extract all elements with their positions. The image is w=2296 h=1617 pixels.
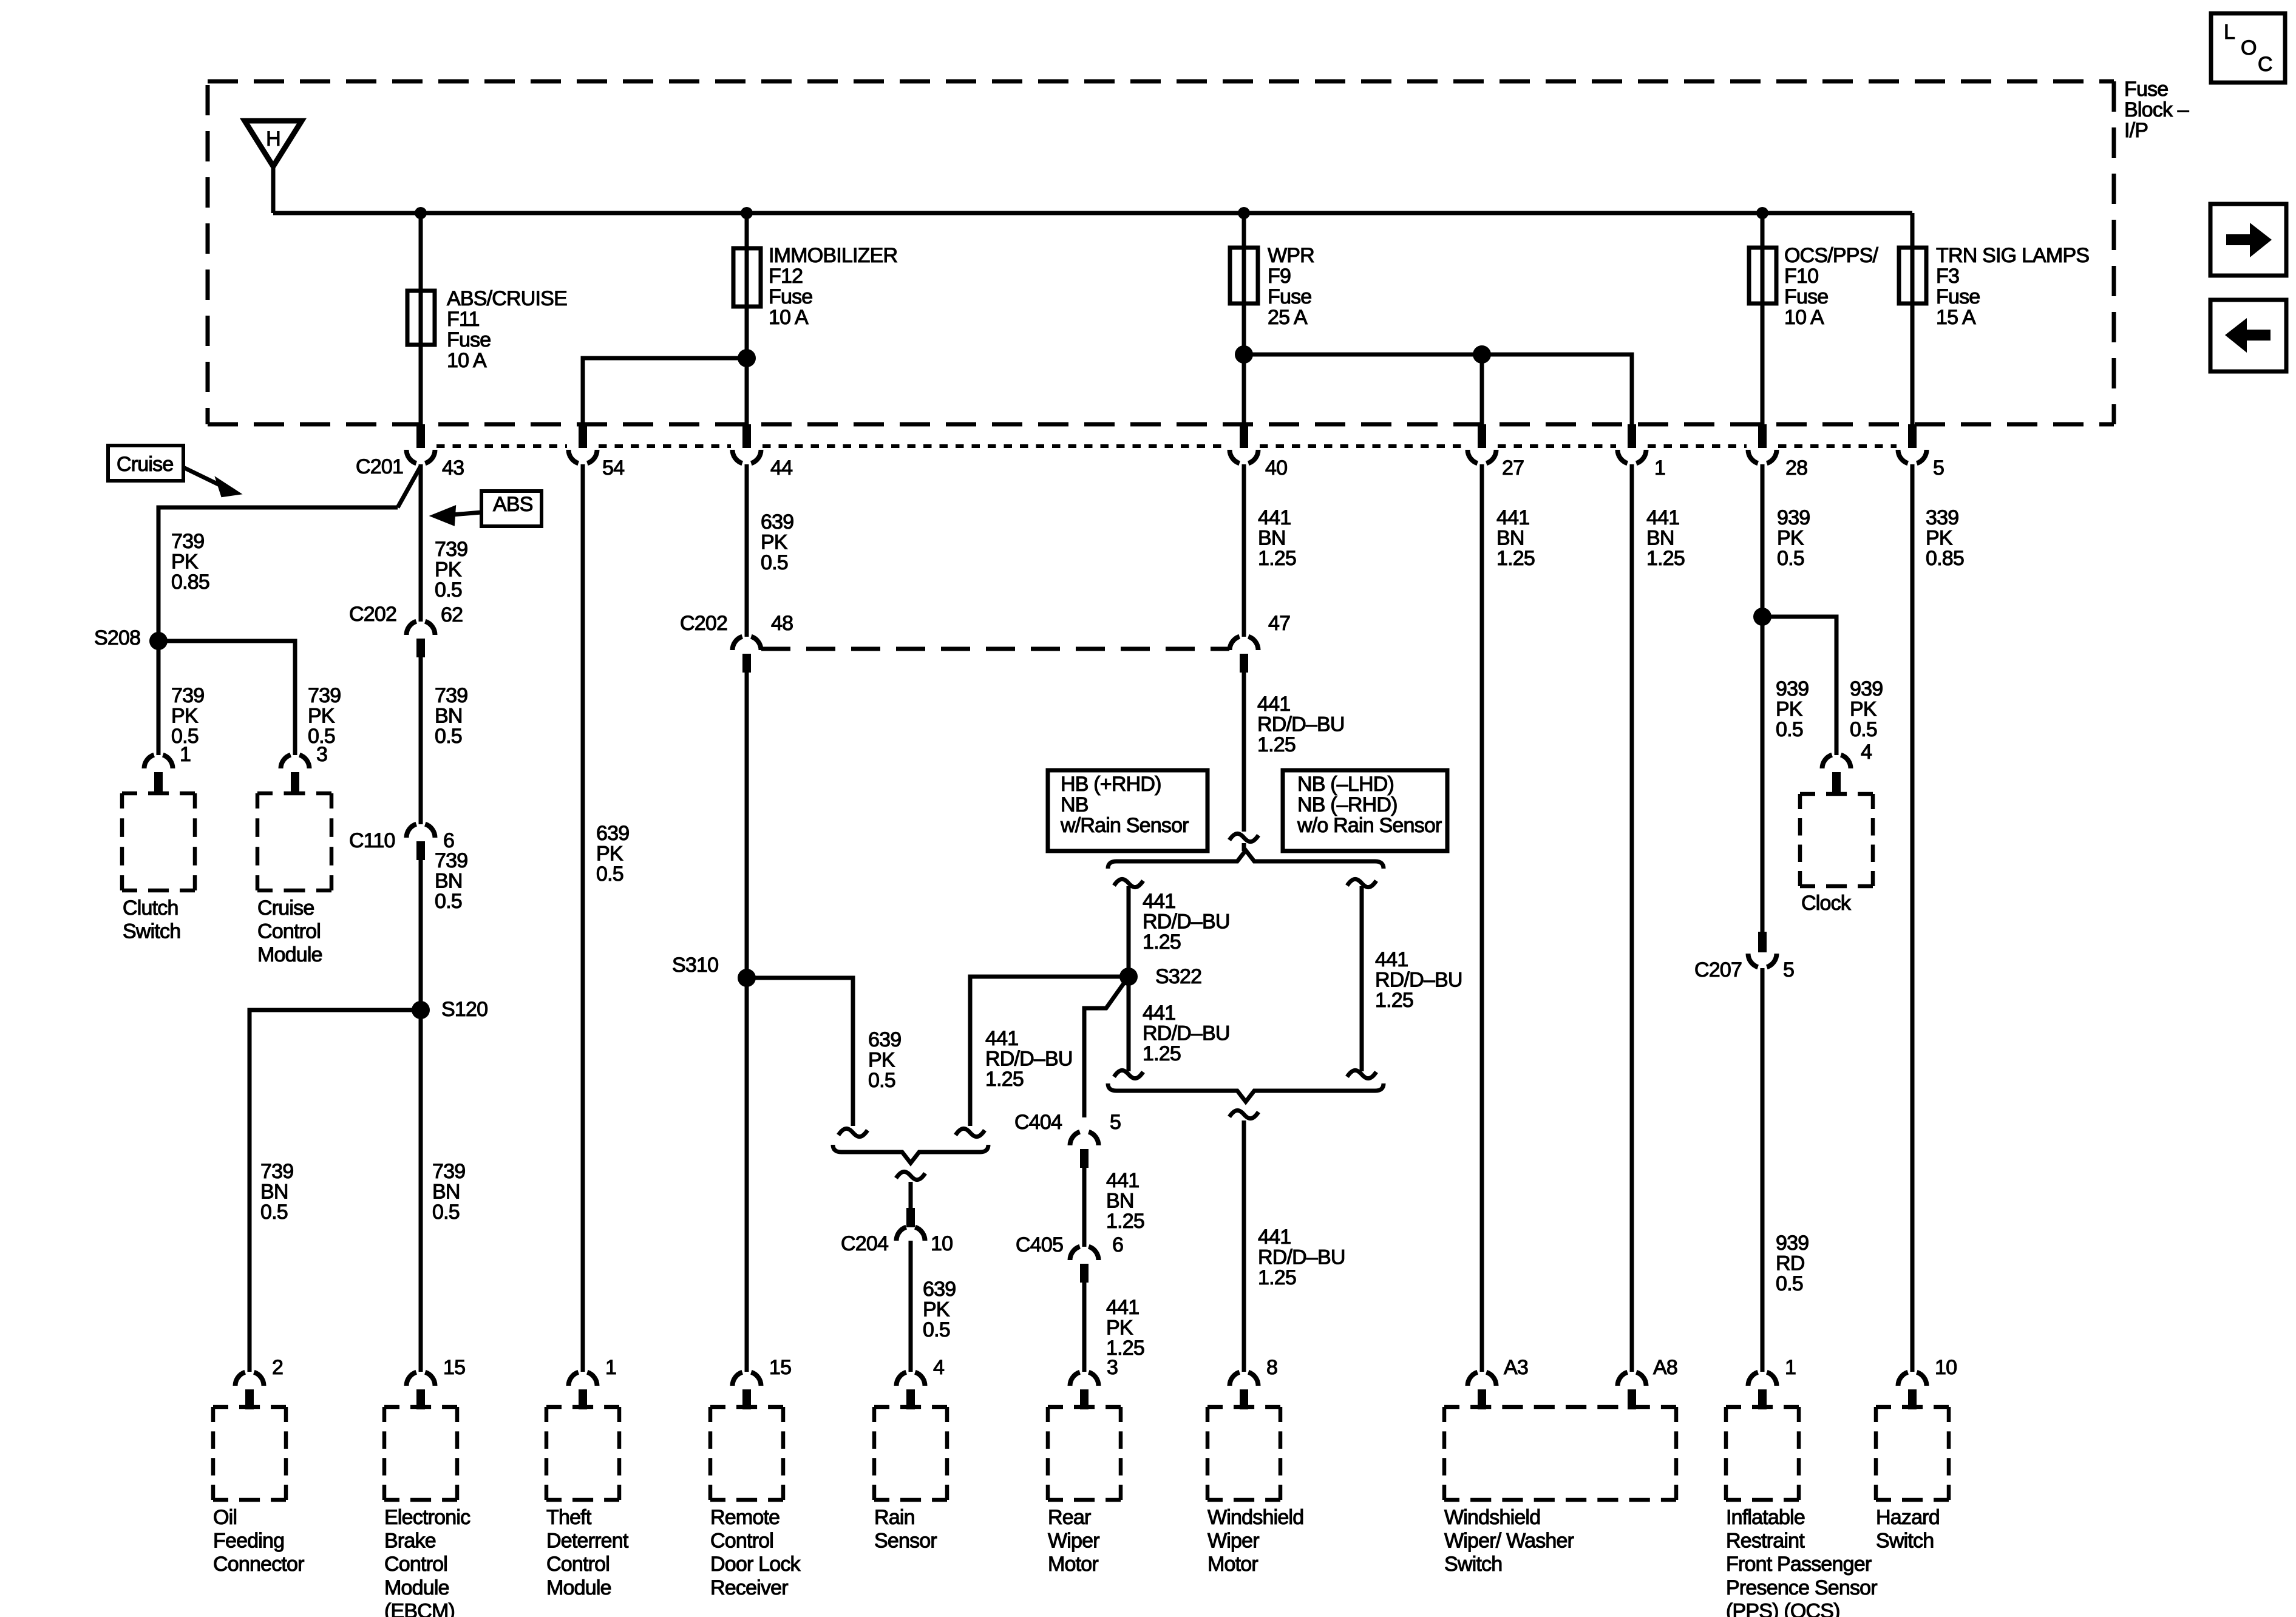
- clutch switch box: [122, 792, 195, 796]
- pin 27 connector: [1468, 450, 1478, 463]
- wire C201-43 to C202-62: [419, 464, 423, 622]
- fuse F9: [1230, 248, 1258, 303]
- svg-text:O: O: [2241, 36, 2257, 59]
- wire bus to fuse F10: [1761, 213, 1765, 303]
- rear wiper motor box: [1048, 1405, 1121, 1409]
- svg-text:C404: C404: [1014, 1111, 1062, 1134]
- C201 pin 43 connector: [407, 450, 416, 463]
- wire C110-6 to S120: [419, 860, 423, 1010]
- svg-text:Cruise: Cruise: [117, 453, 173, 476]
- wire C202-62 to C110-6: [419, 657, 423, 824]
- wire pin 44 to C202-48: [745, 464, 749, 637]
- wire C202-47 to option squiggle: [1242, 673, 1246, 832]
- right option wire: [1360, 886, 1364, 1071]
- wire pin 40 to C202-47: [1242, 464, 1246, 637]
- fuse F12 inner wire: [745, 248, 749, 307]
- wire S322 jog to C404: [1084, 977, 1129, 1117]
- wire C405 to rear wiper motor: [1082, 1283, 1087, 1372]
- inflatable restraint PPS/OCS box: [1726, 1405, 1799, 1409]
- pin 1 connector at theft deterrent control module: [569, 1372, 579, 1386]
- wire clock branch: [1762, 617, 1836, 755]
- wire C201-43 diagonal to cruise branch: [398, 466, 421, 507]
- wire bus to fuse F12: [745, 213, 749, 307]
- svg-text:4: 4: [933, 1356, 944, 1379]
- pin 40 connector: [1230, 450, 1240, 463]
- pin 4 connector at rain sensor: [897, 1372, 906, 1386]
- C207 stub: [1758, 932, 1767, 952]
- theft deterrent control module box: [546, 1405, 619, 1409]
- wire C204 to rain sensor: [909, 1241, 913, 1372]
- pin A3 connector: [1468, 1372, 1478, 1386]
- left option wire squiggle top: [1114, 879, 1143, 887]
- EBCM box: [384, 1405, 457, 1409]
- svg-text:15: 15: [769, 1356, 791, 1379]
- svg-text:C207: C207: [1694, 958, 1742, 981]
- wire fuse F12 to pin 44: [745, 307, 749, 426]
- pin 5 connector: [1898, 450, 1908, 463]
- wire F9 branch to A3/A8 columns: [1244, 354, 1632, 426]
- pin 15 connector at remote control door lock receiver: [733, 1372, 742, 1386]
- inline connector C110 pin 6: [407, 824, 416, 838]
- fuse block I/P dashed border bottom: [208, 422, 2114, 427]
- wire pin 5 to hazard switch: [1911, 464, 1915, 1372]
- svg-text:3: 3: [1107, 1356, 1118, 1379]
- option wire end squiggle (639): [838, 1128, 868, 1136]
- fuse F12: [733, 248, 761, 307]
- inline connector C207 pin 5: [1748, 954, 1758, 967]
- wire C404 to C405: [1082, 1168, 1087, 1247]
- wire pin 27 to wiper switch A3: [1480, 464, 1484, 1372]
- wire underbrace to windshield wiper motor: [1242, 1120, 1246, 1372]
- wire A3 branch down: [1480, 354, 1484, 426]
- svg-text:C: C: [2258, 53, 2272, 76]
- svg-text:S322: S322: [1155, 965, 1201, 988]
- svg-text:15: 15: [443, 1356, 465, 1379]
- pin 27 stub: [1478, 424, 1486, 448]
- wire squiggle to C204: [909, 1182, 913, 1209]
- windshield wiper/washer switch box: [1444, 1405, 1676, 1409]
- svg-text:S310: S310: [672, 954, 718, 977]
- svg-text:1: 1: [180, 743, 191, 766]
- svg-text:CruiseControlModule: CruiseControlModule: [257, 897, 322, 966]
- cruise callout arrow: [183, 467, 226, 488]
- overbrace (wpr options): [1108, 850, 1384, 869]
- option squiggle (wpr bottom): [1229, 1110, 1258, 1118]
- svg-text:48: 48: [771, 612, 793, 635]
- svg-text:10: 10: [931, 1232, 953, 1255]
- wire bus to fuse F9: [1242, 213, 1246, 303]
- junction F9 branch: [1235, 345, 1253, 364]
- wire cruise branch horizontal: [158, 507, 398, 641]
- clock pin connector: [1822, 755, 1832, 768]
- svg-text:54: 54: [602, 456, 624, 480]
- wire F12 branch to pin 54: [583, 358, 747, 426]
- pin 54 connector: [569, 450, 579, 463]
- wire pin 1 to wiper switch A8: [1630, 464, 1634, 1372]
- wire S322 branch to 441 option: [970, 977, 1129, 1126]
- pin 1 stub: [1628, 424, 1636, 448]
- oil feeding connector box: [213, 1405, 286, 1409]
- C201 pin 43 stub: [416, 424, 425, 448]
- windshield wiper motor box: [1207, 1405, 1280, 1409]
- svg-text:ClutchSwitch: ClutchSwitch: [123, 897, 180, 943]
- junction on bus at F12: [741, 207, 753, 219]
- pin 28 connector: [1748, 450, 1758, 463]
- svg-text:C202: C202: [680, 612, 727, 635]
- option box NB w/o Rain Sensor: [1283, 770, 1447, 851]
- inline connector C204 pin 10: [897, 1227, 906, 1241]
- right-arrow box: [2210, 204, 2286, 276]
- fuse F3 inner wire: [1911, 248, 1915, 303]
- svg-text:5: 5: [1110, 1111, 1121, 1134]
- option squiggle (rain): [896, 1171, 925, 1179]
- svg-text:L: L: [2224, 21, 2235, 44]
- right arrow: [2226, 223, 2272, 257]
- LOC reference box: [2211, 13, 2285, 83]
- remote control door lock receiver box: [710, 1405, 783, 1409]
- svg-text:A8: A8: [1653, 1356, 1677, 1379]
- splice S208: [149, 632, 168, 650]
- callout box Cruise: [108, 446, 183, 481]
- right option wire squiggle bottom: [1347, 1070, 1376, 1078]
- svg-text:Clock: Clock: [1801, 892, 1852, 915]
- svg-text:4: 4: [1861, 741, 1872, 764]
- left option wire: [1127, 886, 1131, 1071]
- fuse F3: [1899, 248, 1926, 303]
- wire fuse F9 to pin 40: [1242, 303, 1246, 426]
- svg-text:40: 40: [1265, 456, 1287, 480]
- wire S310 branch to rain option: [747, 978, 853, 1126]
- C202 dashed line: [761, 647, 1229, 651]
- wire pin28 to C207: [1761, 617, 1765, 933]
- wire S208 branch to cruise module: [158, 641, 295, 755]
- pin 1 connector: [1618, 450, 1628, 463]
- svg-text:5: 5: [1933, 456, 1944, 480]
- C204 stub: [906, 1208, 915, 1227]
- wire bus elbow to fuse F3: [1911, 213, 1915, 303]
- junction on bus at F10: [1756, 207, 1768, 219]
- underbrace (wpr options): [1108, 1083, 1384, 1102]
- svg-text:2: 2: [272, 1356, 283, 1379]
- wire S120 to EBCM: [419, 1010, 423, 1372]
- callout box ABS: [481, 491, 542, 526]
- pin 44 stub: [742, 424, 751, 448]
- wire pin 54 to theft deterrent module: [581, 464, 585, 1372]
- option wire end squiggle (441): [956, 1128, 985, 1136]
- left arrow: [2225, 318, 2271, 353]
- svg-text:H: H: [266, 127, 280, 151]
- splice S322: [1119, 968, 1138, 986]
- connector row dotted line: [436, 444, 567, 448]
- wire pin 28 down: [1761, 464, 1765, 617]
- pin 44 connector: [733, 450, 742, 463]
- pin 54 stub: [579, 424, 587, 448]
- wire H to bus: [271, 164, 276, 213]
- wire S310 to RCDLR: [745, 978, 749, 1372]
- pin A8 connector: [1618, 1372, 1628, 1386]
- clutch switch pin connector: [144, 755, 154, 768]
- svg-text:1: 1: [1785, 1356, 1796, 1379]
- svg-text:ABS: ABS: [493, 493, 533, 516]
- pin 8 connector at windshield wiper motor: [1230, 1372, 1240, 1386]
- option box HB w/Rain Sensor: [1048, 770, 1207, 851]
- left-arrow box: [2210, 300, 2286, 371]
- wire C207 to PPS: [1761, 968, 1765, 1372]
- inline connector C202 pin 62: [407, 622, 416, 635]
- wire squiggle to overbrace: [1242, 843, 1246, 851]
- wire fuse F11 to C201 pin 43: [419, 345, 423, 426]
- fuse block I/P dashed border right: [2112, 81, 2116, 424]
- svg-text:44: 44: [770, 456, 792, 480]
- fuse F10: [1749, 248, 1776, 303]
- fuse block I/P dashed border top: [208, 80, 2114, 84]
- wire fuse F3 to pin 5: [1911, 303, 1915, 426]
- pin 3 connector at rear wiper motor: [1070, 1372, 1080, 1386]
- svg-text:C202: C202: [349, 603, 396, 626]
- svg-text:C110: C110: [349, 829, 395, 852]
- fuse block I/P dashed border left: [206, 85, 210, 424]
- svg-text:3: 3: [316, 743, 327, 766]
- svg-text:8: 8: [1266, 1356, 1277, 1379]
- svg-text:5: 5: [1783, 958, 1794, 981]
- wire bus to fuse F11: [419, 213, 423, 345]
- wire S208 to clutch switch: [157, 641, 161, 755]
- ABS callout arrow: [452, 512, 481, 515]
- fuse F11 inner wire: [419, 291, 423, 345]
- fuse F10 inner wire: [1761, 248, 1765, 303]
- left option wire squiggle bottom: [1114, 1070, 1143, 1078]
- junction F12 branch: [738, 349, 756, 367]
- rain sensor box: [874, 1405, 947, 1409]
- svg-text:C201: C201: [356, 455, 403, 478]
- cruise module pin connector: [281, 755, 291, 768]
- wire S120 branch to oil feeding connector: [250, 1010, 421, 1372]
- pin 10 connector at hazard switch: [1898, 1372, 1908, 1386]
- inline connector C405 pin 6: [1070, 1247, 1080, 1260]
- svg-text:A3: A3: [1504, 1356, 1528, 1379]
- svg-text:27: 27: [1502, 456, 1524, 480]
- junction A3 branch: [1473, 345, 1491, 364]
- inline connector C404 pin 5: [1070, 1132, 1080, 1145]
- hazard switch box: [1876, 1405, 1949, 1409]
- svg-text:1: 1: [1654, 456, 1665, 480]
- svg-text:47: 47: [1268, 612, 1290, 635]
- svg-text:10: 10: [1935, 1356, 1957, 1379]
- svg-text:62: 62: [441, 603, 463, 626]
- cruise control module box: [257, 792, 331, 796]
- svg-text:HazardSwitch: HazardSwitch: [1876, 1506, 1940, 1553]
- hot-at-all-times symbol H (triangle): [245, 121, 302, 166]
- svg-text:C204: C204: [841, 1232, 888, 1255]
- inline connector C202 pin 47: [1230, 637, 1240, 650]
- svg-text:43: 43: [442, 456, 464, 480]
- svg-text:S120: S120: [441, 998, 487, 1021]
- pin 2 connector at oil feeding connector: [236, 1372, 245, 1386]
- pin 15 connector at EBCM: [407, 1372, 416, 1386]
- underbrace (rain options): [833, 1145, 988, 1163]
- junction on bus at F9: [1238, 207, 1250, 219]
- splice S310: [738, 969, 756, 987]
- wire C202-48 to S310: [745, 673, 749, 978]
- pin 40 stub: [1240, 424, 1248, 448]
- junction on bus at F11: [415, 207, 427, 219]
- fuse F11: [407, 291, 435, 345]
- pin 1 connector at inflatable restraint PPS/OCS: [1748, 1372, 1758, 1386]
- svg-text:1: 1: [605, 1356, 616, 1379]
- right option wire squiggle top: [1347, 879, 1376, 887]
- junction clock branch: [1753, 608, 1771, 626]
- splice S120: [412, 1001, 430, 1019]
- svg-text:C405: C405: [1016, 1233, 1063, 1256]
- fuse F9 inner wire: [1242, 248, 1246, 303]
- svg-text:6: 6: [1112, 1233, 1123, 1256]
- option squiggle (wpr top): [1229, 833, 1258, 841]
- wire fuse F10 to pin 28: [1761, 303, 1765, 426]
- inline connector C202 pin 48: [733, 637, 742, 650]
- svg-text:S208: S208: [94, 626, 140, 649]
- pin 5 stub: [1908, 424, 1917, 448]
- svg-text:28: 28: [1785, 456, 1807, 480]
- pin 28 stub: [1758, 424, 1767, 448]
- power bus wire: [273, 211, 1912, 215]
- clock box: [1800, 792, 1873, 796]
